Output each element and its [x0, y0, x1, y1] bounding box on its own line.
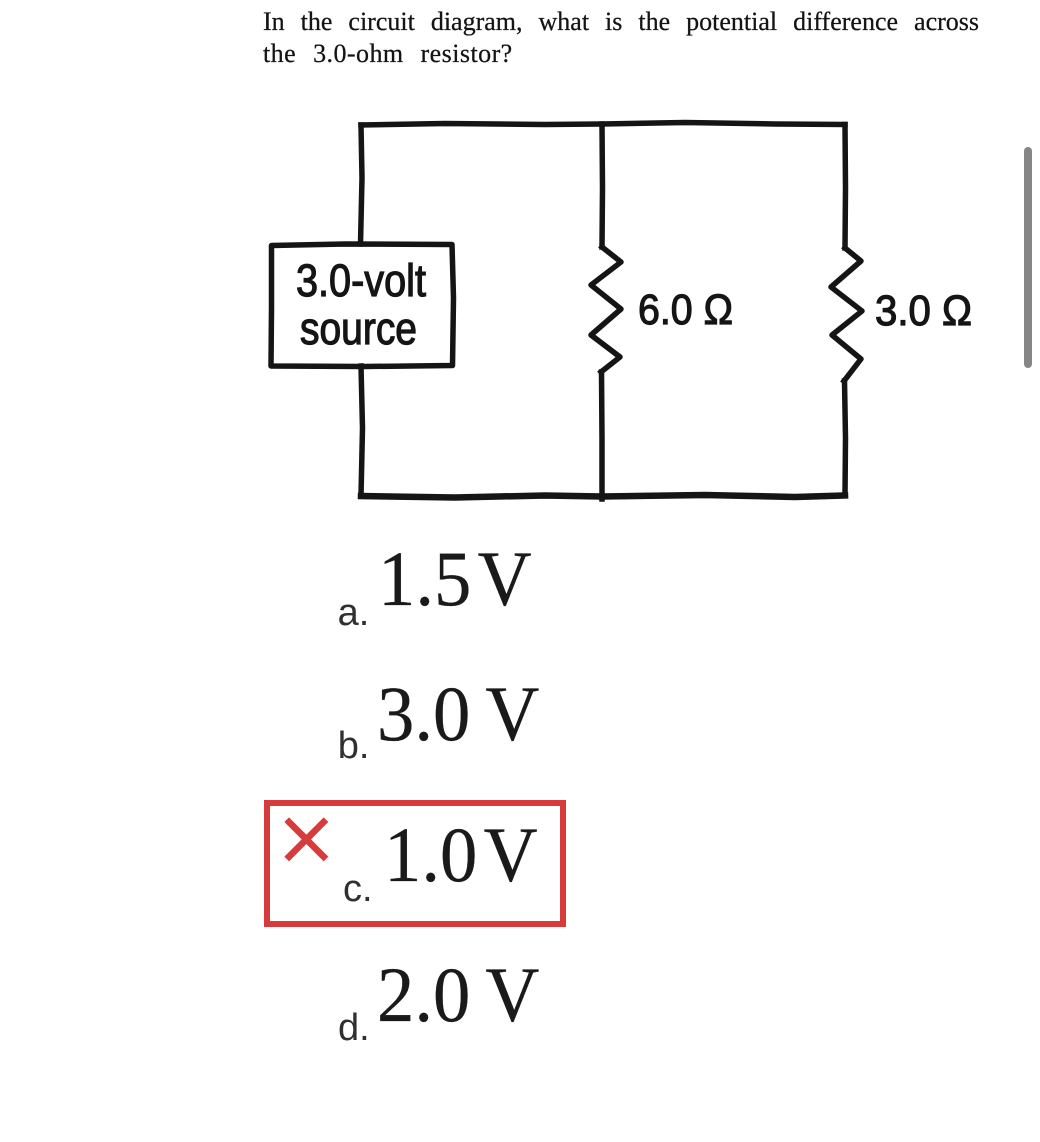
svg-text:3.0-volt: 3.0-volt [296, 255, 426, 306]
svg-text:6.0 Ω: 6.0 Ω [638, 286, 733, 334]
svg-text:3.0 Ω: 3.0 Ω [875, 287, 972, 335]
svg-text:source: source [300, 303, 417, 354]
